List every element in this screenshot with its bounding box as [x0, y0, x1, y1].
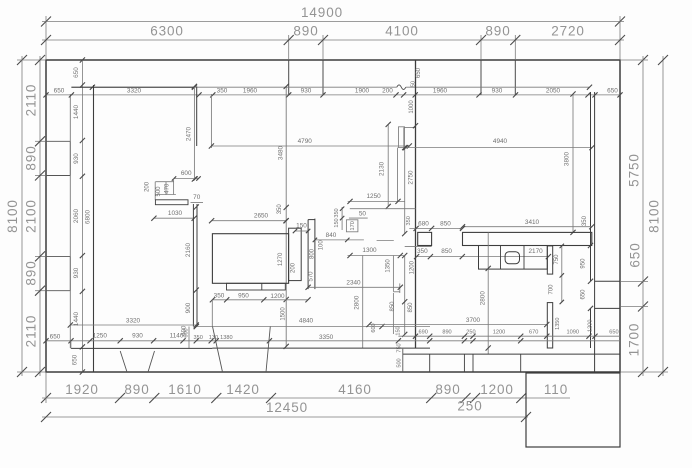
svg-text:1420: 1420	[226, 382, 260, 397]
svg-text:800: 800	[309, 248, 315, 259]
window top 2 jambs	[480, 60, 482, 95]
svg-text:850: 850	[408, 302, 414, 313]
dim chain right wall 950/650 rotated	[588, 243, 593, 248]
annex room bottom right	[526, 373, 620, 447]
dim 150	[295, 230, 308, 232]
dim 2650	[212, 220, 286, 222]
svg-text:930: 930	[132, 332, 143, 339]
svg-text:250: 250	[457, 399, 482, 414]
svg-text:2110: 2110	[24, 84, 39, 117]
svg-text:4160: 4160	[338, 382, 372, 397]
svg-text:600: 600	[181, 170, 192, 177]
svg-text:350: 350	[582, 215, 588, 226]
svg-text:650: 650	[609, 329, 618, 335]
dim 3700	[369, 324, 547, 326]
svg-text:6300: 6300	[150, 24, 184, 39]
svg-text:1030: 1030	[168, 210, 183, 217]
extension lines left	[17, 59, 45, 61]
svg-text:1270: 1270	[278, 252, 284, 266]
svg-text:700: 700	[548, 284, 554, 295]
dim 3320 bottom	[70, 324, 196, 326]
svg-text:2050: 2050	[546, 88, 561, 95]
svg-text:890: 890	[293, 24, 318, 39]
dim 3480 rotated and center wall line	[285, 86, 287, 346]
svg-text:570: 570	[309, 271, 315, 282]
svg-text:3700: 3700	[466, 317, 481, 324]
dim 2750 rotated	[404, 148, 406, 234]
dim 1300	[348, 255, 405, 257]
dim line 750/700 right of stub	[561, 246, 563, 302]
right wall inner face line	[594, 92, 596, 372]
svg-text:350: 350	[334, 208, 340, 217]
extension lines top corners	[45, 16, 47, 59]
svg-text:14900: 14900	[301, 5, 343, 20]
svg-text:1350: 1350	[386, 259, 392, 273]
svg-text:950: 950	[580, 258, 586, 269]
wall lines right of bed	[307, 220, 309, 290]
svg-text:350: 350	[194, 335, 203, 341]
svg-text:1200: 1200	[270, 293, 285, 300]
dim 2800 rotated right	[487, 232, 489, 354]
dim chain bottom-left 650/1250/930/1140/600/350/130/1380/3350	[46, 340, 620, 342]
dim line right 8100	[662, 56, 664, 376]
bath north wall bar	[463, 232, 592, 245]
svg-text:3480: 3480	[277, 145, 284, 160]
svg-text:650: 650	[72, 354, 79, 365]
svg-text:1920: 1920	[65, 382, 99, 397]
svg-text:1350: 1350	[555, 317, 561, 329]
svg-text:150: 150	[296, 222, 307, 229]
svg-text:900: 900	[185, 302, 192, 313]
dim 1200/850 line left of wall	[404, 256, 406, 335]
svg-text:930: 930	[492, 88, 503, 95]
wall step near x404	[403, 128, 405, 148]
dim chain bottom-right 600/150/690/890/250/1200/670/1090/650	[398, 335, 620, 337]
dim chain left interior 650/1440/930/2060/930/1440/650	[81, 60, 83, 372]
svg-text:2800: 2800	[480, 291, 487, 306]
svg-text:110: 110	[544, 382, 568, 397]
vanity fixture row	[479, 246, 548, 270]
svg-text:890: 890	[24, 260, 39, 285]
svg-text:1090: 1090	[566, 329, 578, 335]
dim 2130 rotated	[387, 124, 389, 206]
wall stub right 750	[547, 246, 552, 274]
wall partition mid-left	[192, 204, 194, 327]
break mark squiggle	[397, 85, 406, 90]
extension lines right	[621, 59, 648, 61]
svg-text:1250: 1250	[366, 193, 381, 200]
svg-text:70: 70	[193, 194, 201, 201]
svg-text:150: 150	[334, 218, 340, 227]
shaft rect near center wall	[399, 127, 405, 148]
right wall door lines	[595, 280, 620, 282]
top wall inner face line upper	[71, 86, 396, 88]
svg-text:3800: 3800	[564, 151, 571, 166]
svg-text:100: 100	[318, 240, 324, 251]
wall left room north face	[71, 86, 194, 88]
svg-text:1440: 1440	[73, 104, 80, 119]
svg-text:2110: 2110	[24, 315, 39, 348]
window left 1	[46, 140, 70, 142]
dim chain 680/850 above door	[409, 227, 462, 229]
svg-text:890: 890	[442, 329, 451, 335]
svg-text:1200: 1200	[493, 329, 505, 335]
svg-text:890: 890	[435, 382, 460, 397]
svg-text:650: 650	[50, 333, 61, 340]
svg-text:690: 690	[419, 329, 428, 335]
step detail lines	[155, 181, 174, 183]
svg-text:2470: 2470	[185, 126, 192, 141]
window left 2	[46, 255, 70, 257]
shaft left edge extension	[397, 148, 399, 202]
svg-text:930: 930	[301, 88, 312, 95]
bottom wall inner face left	[71, 347, 213, 349]
svg-text:1960: 1960	[433, 88, 448, 95]
bottom wall inner face right	[403, 353, 620, 355]
dim chain top interior 650/3320/350/1960/930/1900/200/1960/930/2050/650	[46, 94, 620, 96]
svg-text:1140: 1140	[170, 332, 184, 339]
bottom door splay mid	[213, 327, 223, 373]
dim 600	[174, 178, 199, 180]
svg-text:890: 890	[24, 145, 39, 170]
wall stub x196 below top chain	[196, 86, 198, 146]
wall right room west face	[590, 92, 592, 281]
bottom wall inner face mid	[212, 347, 430, 349]
svg-text:600: 600	[184, 328, 190, 337]
dim line left 8100	[21, 56, 23, 376]
svg-text:1610: 1610	[168, 382, 202, 397]
svg-text:1200: 1200	[480, 382, 514, 397]
svg-text:890: 890	[485, 24, 510, 39]
extension lines bottom corners	[45, 373, 47, 403]
svg-text:4100: 4100	[385, 24, 419, 39]
bed rectangle	[212, 234, 288, 284]
svg-text:1900: 1900	[355, 88, 370, 95]
svg-text:3350: 3350	[319, 334, 334, 341]
dim 4940	[406, 147, 592, 149]
wall stub right lower	[547, 303, 552, 348]
dim line 14900 top row	[42, 21, 624, 23]
svg-text:2800: 2800	[354, 295, 361, 310]
svg-text:170: 170	[350, 221, 356, 230]
svg-text:500: 500	[396, 358, 402, 367]
svg-text:680: 680	[418, 220, 429, 227]
dim 170 boxed rotated	[346, 220, 358, 232]
svg-text:650: 650	[628, 242, 643, 267]
svg-text:1380: 1380	[220, 335, 232, 341]
svg-text:2750: 2750	[408, 170, 415, 185]
svg-text:5750: 5750	[627, 153, 642, 187]
svg-text:2340: 2340	[346, 280, 361, 287]
svg-text:350: 350	[406, 216, 412, 225]
svg-text:50: 50	[359, 210, 367, 217]
bed side extension	[289, 228, 302, 280]
svg-text:840: 840	[326, 232, 337, 239]
svg-text:150: 150	[395, 326, 401, 335]
wall center vertical	[415, 60, 417, 348]
svg-text:2160: 2160	[185, 242, 192, 257]
plinth rect	[155, 200, 188, 205]
svg-text:1960: 1960	[243, 88, 258, 95]
dim 2470 vertical	[193, 86, 195, 179]
dim 2800 rotated left	[362, 256, 364, 349]
svg-text:950: 950	[238, 292, 249, 299]
svg-text:850: 850	[441, 248, 452, 255]
svg-text:930: 930	[73, 267, 80, 278]
dim line bottom 12450 and 250	[42, 416, 528, 418]
svg-text:1200: 1200	[588, 320, 594, 332]
svg-text:1500: 1500	[281, 307, 287, 321]
svg-text:930: 930	[73, 153, 80, 164]
bath door stub	[418, 232, 432, 245]
svg-text:12450: 12450	[266, 400, 308, 415]
svg-text:350: 350	[217, 88, 228, 95]
step lines near 50	[350, 208, 416, 210]
svg-text:350: 350	[214, 292, 225, 299]
dim 2340	[308, 286, 400, 288]
svg-text:1440: 1440	[73, 311, 80, 326]
svg-text:750: 750	[396, 343, 402, 352]
svg-text:3320: 3320	[127, 88, 142, 95]
svg-text:2720: 2720	[551, 24, 585, 39]
bed bottom drawers strip	[227, 283, 286, 290]
wall left room west face	[93, 85, 95, 372]
toilet	[505, 252, 519, 264]
svg-text:200: 200	[291, 262, 297, 273]
svg-text:350: 350	[277, 204, 283, 215]
svg-text:650: 650	[580, 289, 586, 300]
dim 840	[315, 239, 364, 241]
svg-text:1250: 1250	[93, 332, 108, 339]
svg-text:2170: 2170	[528, 248, 543, 255]
svg-text:1000: 1000	[409, 100, 415, 114]
svg-text:3410: 3410	[525, 219, 540, 226]
svg-text:650: 650	[73, 67, 80, 78]
svg-text:750: 750	[554, 254, 560, 265]
outer wall border	[46, 60, 620, 372]
svg-text:1300: 1300	[362, 247, 377, 254]
extension line below bed chain	[211, 300, 213, 327]
svg-text:200: 200	[145, 181, 151, 192]
svg-text:130: 130	[209, 335, 218, 341]
dim 3410	[463, 226, 592, 228]
window top 1 jambs	[288, 60, 290, 95]
bottom right opening jambs	[429, 354, 431, 372]
svg-text:1200: 1200	[409, 260, 415, 274]
svg-text:6800: 6800	[84, 209, 91, 224]
svg-text:8100: 8100	[647, 199, 662, 233]
dim 1250	[348, 200, 405, 202]
svg-text:470: 470	[164, 183, 170, 194]
svg-text:200: 200	[382, 88, 393, 95]
svg-text:350: 350	[417, 248, 428, 255]
svg-text:2100: 2100	[24, 199, 39, 233]
dim 1350 rotated and step lines	[392, 256, 394, 292]
svg-text:650: 650	[416, 67, 422, 78]
door threshold line below stub	[405, 246, 432, 248]
svg-text:4790: 4790	[298, 138, 313, 145]
svg-text:250: 250	[466, 329, 475, 335]
bottom window splay left	[120, 351, 127, 372]
svg-text:670: 670	[529, 329, 538, 335]
dim line left 2110/890/2100/890/2110	[39, 56, 41, 376]
dim 4840	[196, 326, 430, 328]
svg-text:650: 650	[54, 88, 65, 95]
svg-text:850: 850	[440, 220, 451, 227]
svg-text:2130: 2130	[379, 161, 386, 176]
dim line bottom 1920/890/1610/1420/4160/890/250/1200/110	[42, 397, 570, 399]
dim 3800 rotated	[572, 94, 574, 232]
dim 1030	[154, 217, 194, 219]
svg-text:650: 650	[607, 88, 618, 95]
dim line right 5750/650/1700	[642, 56, 644, 376]
dim line top row2 6300/890/4100/890/2720	[42, 39, 624, 41]
svg-text:2650: 2650	[254, 212, 269, 219]
svg-text:890: 890	[124, 382, 149, 397]
svg-text:3320: 3320	[126, 318, 141, 325]
dim chain 350/950/1200 below bed	[212, 299, 308, 301]
dim 4790	[211, 145, 409, 147]
svg-text:1700: 1700	[627, 323, 642, 357]
svg-text:8100: 8100	[5, 199, 20, 233]
svg-text:4840: 4840	[299, 317, 314, 324]
left wall inner face line	[69, 94, 71, 348]
dim chain 350/850/2170	[417, 256, 549, 258]
svg-text:4940: 4940	[493, 138, 508, 145]
svg-text:2060: 2060	[73, 208, 80, 223]
